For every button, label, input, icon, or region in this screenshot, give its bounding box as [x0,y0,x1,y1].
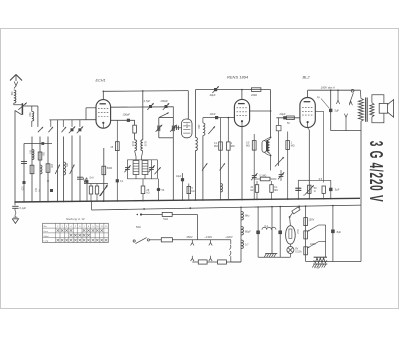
coil 200 [46,164,50,173]
wire x173.3 down to bus [172,138,174,201]
svg-text:0,22: 0,22 [185,124,187,129]
svg-text:180V abn.A: 180V abn.A [321,86,335,90]
choke bumps 8Hy [241,212,244,221]
capacitor 5uF cathode [330,180,332,198]
trimmer 280pF [165,105,168,108]
column x57.5 [57,120,59,201]
bottom tie left power [258,256,290,258]
coil 500 [31,106,33,112]
filter choke column [240,207,242,262]
switch S3 [62,127,67,132]
selector contacts [230,240,232,244]
riser to tube1 upper pin [85,108,87,120]
svg-text:280pF: 280pF [160,99,169,103]
resistor 51ohm heater [162,212,172,216]
svg-text:0,1µF: 0,1µF [20,207,27,210]
trimmer right det [280,170,282,181]
IF2 right coil [268,140,270,154]
column x91.6 link to bus2 [91,201,93,210]
svg-text:MΩ: MΩ [231,145,235,148]
wire top line 1 [103,90,188,93]
wire tube2 grid line [203,117,235,119]
IF1 bottom tie [127,178,157,180]
coil L-ant 001 [14,86,16,89]
divider resistor 3 [304,247,308,255]
svg-text:10µF: 10µF [176,175,182,178]
coil 065 [64,162,66,175]
wire vertical x142.8 [142,91,144,140]
smoothing cap 8uF [332,206,334,262]
switch S1 [38,127,43,132]
svg-text:500: 500 [28,113,31,118]
speaker cone [388,100,394,118]
IF1 coil right [142,161,148,175]
tap fork lower 2 [210,256,212,259]
tap arrow 160V [308,242,319,248]
resistor 050 x40 [38,152,42,160]
heater pin dots on bus [143,208,145,210]
tap fork lower 1 [191,256,193,259]
trimmer V [83,178,86,183]
svg-text:80µF: 80µF [245,231,251,234]
IF1 right trimmer branch 1 [151,160,153,179]
right collector vertical [325,225,327,257]
IF2 left oval coil [262,141,266,153]
svg-text:5+0: 5+0 [90,177,95,180]
trimmer C-ant [21,103,23,115]
svg-text:5µF: 5µF [335,109,340,113]
svg-text:kΩ: kΩ [251,190,254,192]
capacitor 0,1uF ground [14,202,16,205]
wire AF line [276,117,300,119]
wire heater right [172,214,197,216]
flexible wire [15,208,16,217]
trimmer C2 [71,128,74,131]
wire tube3 anode top [307,90,309,97]
misc junction dots [103,91,105,93]
svg-text:kΩ: kΩ [147,192,150,195]
switch on x220.5 [220,163,225,170]
antenna [10,75,16,81]
wire osc grid A [111,106,174,108]
resistor 0,1M det [271,181,273,185]
coil 0,10 [40,165,42,174]
svg-text:100: 100 [197,125,200,130]
svg-text:7×16: 7×16 [314,267,320,270]
resistor x32 [30,165,34,174]
wire B tube1 to IF [111,119,135,121]
switch S2 [48,127,53,132]
voltage dropper row [192,261,198,263]
potentiometer arrow [100,185,107,197]
wire trimmer to switch column [22,105,38,107]
coil 0100 a [135,140,137,151]
AVC cluster wire [84,183,108,185]
svg-text:250V: 250V [187,235,193,239]
tap arrow 150V [308,225,319,231]
svg-text:RENS 1894: RENS 1894 [227,75,249,80]
column x72 [71,136,73,202]
wire row under switches [24,143,52,145]
switch osc [159,113,169,118]
component box small [276,126,281,131]
svg-text:53Ω: 53Ω [136,226,141,229]
resistor 0,1M branch [220,118,222,200]
coil x195.4 branch [194,90,196,138]
heater bus [92,205,361,210]
IF2 top junction [264,137,270,140]
svg-text:Ber.: Ber. [44,225,48,228]
variable capacitor osc 1 [157,126,159,132]
trimmer arrow near coil100 [208,126,215,134]
terminal fork 1 [337,90,339,100]
wire top line 3 [308,89,361,91]
capacitor dark x40 top [41,142,44,145]
cathode left branch [298,179,309,181]
hatched ground heater [313,263,327,265]
wire to S1 [37,106,39,127]
resistor 50k AF [287,116,295,120]
fuse [292,207,300,214]
svg-text:001: 001 [10,92,13,97]
svg-text:160V: 160V [310,243,316,246]
column x63.5 [63,137,65,202]
svg-text:MΩ: MΩ [246,145,250,148]
trimmer 40pF [214,88,217,91]
capacitor 10uF branch [182,173,184,200]
mains plug [133,240,135,242]
svg-text:51Ω: 51Ω [163,218,168,221]
jack lever [349,93,353,104]
wire tube2 cathode [241,127,243,200]
capacitor on x24 [21,161,27,163]
trimmer on x254.2 [252,175,257,177]
speaker wiring loop [372,95,384,104]
IF1 top tie [127,159,157,161]
divider resistor 2 [304,231,308,239]
tube V1 ECH11 [96,100,111,129]
svg-text:20kΩ: 20kΩ [250,93,257,97]
wire to coil 1a [134,133,136,140]
trimmer C3 [78,128,81,131]
svg-text:0,1MΩ: 0,1MΩ [260,176,267,178]
svg-text:ECH1: ECH1 [96,79,106,83]
svg-text:Stellung d. W.: Stellung d. W. [66,217,85,221]
ground symbol [12,219,18,224]
cathode pot 50ohm [308,185,311,193]
divider resistor 1 [304,218,308,226]
oscillator box [158,118,160,138]
wire box to osc coil with padding capacitor [173,127,181,129]
filter cap column 1 [257,207,259,257]
svg-text:Mittel: Mittel [44,235,50,238]
svg-text:Kurz: Kurz [44,230,48,233]
svg-text:BL2: BL2 [303,75,311,80]
column x48 [47,137,49,202]
resistor 25k below IF1 [142,179,144,186]
svg-text:0,15A: 0,15A [295,251,302,254]
heater element block [314,256,327,258]
svg-text:MΩ: MΩ [291,145,295,148]
wire bottom tie output [331,130,361,132]
switch S5 [70,165,75,175]
column x24 [23,144,25,202]
detector pot arrow [275,157,284,167]
svg-text:~130V: ~130V [205,235,213,239]
IF1 coil left [133,161,139,175]
capacitor 5uF screen [329,109,332,112]
IF1 right trimmer branch 2 [157,160,159,179]
speaker magnet box [379,103,387,113]
junction dots on buses [14,201,16,203]
svg-text:40µF: 40µF [210,93,216,97]
wire antenna to trimmer [14,103,23,105]
grid resistor 25k branch [116,120,118,201]
wire osc coil top [187,118,189,120]
choke bumps low [241,240,244,249]
IF2 core bar [266,140,268,152]
variable capacitor osc 2 [171,126,173,132]
rectifier tube U1Z [286,226,296,244]
svg-text:20µF: 20µF [279,112,286,116]
capacitor left cathode [295,187,301,189]
IF transformer 1 top Y [135,151,136,160]
tap fork 250V [191,240,193,243]
svg-text:1µ: 1µ [317,95,320,99]
heater feed line with arrow [136,214,138,216]
dial lamp [287,247,294,254]
resistor 20k det [256,181,258,185]
terminal fork 2 [349,101,352,105]
capacitor 1,5 [50,189,53,192]
svg-text:4,7pF: 4,7pF [144,99,151,103]
oscillator coil 0,22 [182,119,193,138]
IF1 left trimmer branch [126,160,128,179]
table X marks [57,229,60,232]
tube2 anode wire [250,110,271,112]
resistor 1M branch [227,118,229,142]
wire tube2 top [241,90,243,100]
svg-text:U1Z: U1Z [296,230,298,235]
resistor 1M branch right [287,132,289,200]
svg-text:5µF: 5µF [335,188,340,192]
wire B corner [134,120,136,125]
tap fork 130V [210,240,212,243]
capacitor dark x87 [86,180,89,183]
resistor 0,5M branch [253,134,255,199]
output transformer primary [359,90,362,98]
switch below coil100 [202,136,204,201]
column x87 stub [86,178,88,201]
IF2 bottom junction [264,152,270,155]
choke bumps mid [241,227,244,236]
wire transformer down long [360,121,362,205]
output transformer core [365,98,367,122]
tube3 cathode vertical [308,128,310,131]
resistor 30k [133,125,137,133]
svg-text:~220V: ~220V [225,235,233,239]
coil 0100 b [141,140,143,151]
svg-text:8Hy: 8Hy [245,215,250,218]
junction x48 [47,180,49,182]
svg-text:5000: 5000 [107,167,113,170]
main ground bus [15,198,360,202]
wire heater to collector [326,256,327,258]
svg-text:0100: 0100 [131,141,133,147]
resistor AVC2 [96,184,98,187]
wire detector vertical [278,131,280,166]
resistor 5000 branch [103,148,105,201]
svg-text:kΩ: kΩ [192,190,195,193]
resistor h 0,1M detector [254,178,260,180]
coil 100 [202,118,204,123]
coil G on x220.5 [221,184,223,193]
wire tube1 anode to top line [102,91,104,99]
choke horizontal 6,4 [262,227,276,229]
svg-text:0100: 0100 [144,141,146,147]
right vertical below bus [360,205,362,261]
capacitor 0,1 dark [116,179,119,182]
leader 1uF [321,99,329,109]
jack circle [351,89,354,92]
resistor 0,5 right [323,111,325,182]
svg-text:0,7: 0,7 [245,244,249,247]
capacitor x80 [77,176,83,178]
tube V3 BL2 [300,98,315,128]
bottom power line [306,261,361,263]
wire anode corner x270.6 [270,90,272,138]
terminal fork 3 [345,117,347,130]
capacitor dark x24 [23,181,26,184]
trimmer 4,7pF [149,105,152,108]
column x32 [31,137,33,202]
capacitor 100pF [127,119,130,122]
column x80 [79,136,81,202]
tube3 screen wire right [315,110,323,112]
capacitor dot 50 [158,179,160,188]
wire lamp [289,244,291,246]
wire top line 2 [195,89,270,91]
svg-text:100pF: 100pF [123,112,131,116]
wire screen branch x330.7 [330,90,332,130]
capacitor 10nF [215,116,218,119]
svg-text:10nF: 10nF [210,112,216,116]
wire A corner down to box [172,107,174,118]
ground column mid [271,207,273,254]
wire to left bus [15,111,22,115]
antenna connector V [14,82,18,86]
hatched ground 1 [265,253,277,255]
wire IF2 down [270,156,272,171]
tube V2 RENS1894 [234,99,249,126]
svg-text:MΩ: MΩ [274,190,278,192]
coil 010 [32,150,34,160]
potentiometer volume arrow [100,186,108,197]
svg-text:Ω: Ω [314,190,316,193]
column x40 [39,137,41,202]
svg-text:8µF: 8µF [337,230,342,234]
resistor AVC1 [90,184,92,187]
wire voltage selector [172,239,230,241]
svg-text:3 G 4/220 V: 3 G 4/220 V [365,141,385,203]
cathode right branch [309,179,331,181]
switch S4 [55,165,60,175]
resistor 53ohm mains [149,239,161,241]
output transformer secondary [370,103,374,117]
svg-text:150V: 150V [309,219,315,222]
resistor 5k branch [188,184,190,201]
capacitor 20uF AF [283,116,286,119]
filter cap column 2 [279,207,281,258]
junction grid line [227,117,229,119]
voltage divider column [305,206,307,261]
band switch table [43,223,109,242]
wire top corner down to osc coil [187,91,189,120]
resistor 20k anode [251,88,261,92]
wire H1 grid line [49,119,96,121]
svg-text:MΩ: MΩ [214,145,218,148]
